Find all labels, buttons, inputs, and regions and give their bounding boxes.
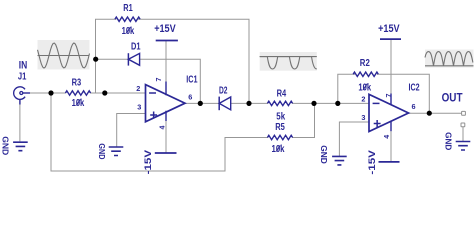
svg-text:R2: R2 bbox=[360, 58, 370, 69]
svg-text:R5: R5 bbox=[275, 122, 285, 133]
svg-text:IC2: IC2 bbox=[409, 83, 420, 94]
svg-text:OUT: OUT bbox=[442, 91, 464, 105]
svg-text:2: 2 bbox=[136, 84, 140, 93]
svg-text:5k: 5k bbox=[276, 112, 285, 123]
svg-text:GND: GND bbox=[97, 143, 106, 159]
svg-text:3: 3 bbox=[137, 102, 141, 111]
svg-text:4: 4 bbox=[384, 135, 391, 139]
svg-text:2: 2 bbox=[361, 95, 365, 104]
svg-text:4: 4 bbox=[159, 125, 166, 129]
svg-text:GND: GND bbox=[319, 145, 328, 164]
svg-text:7: 7 bbox=[156, 77, 163, 81]
svg-text:-15V: -15V bbox=[143, 150, 153, 175]
svg-text:J1: J1 bbox=[18, 72, 27, 83]
svg-text:+15V: +15V bbox=[378, 23, 400, 35]
svg-text:R1: R1 bbox=[123, 3, 133, 14]
svg-text:D2: D2 bbox=[219, 86, 228, 97]
svg-text:IC1: IC1 bbox=[186, 74, 197, 85]
svg-text:-15V: -15V bbox=[367, 150, 377, 175]
svg-text:+15V: +15V bbox=[154, 23, 176, 35]
svg-text:6: 6 bbox=[412, 102, 416, 111]
svg-text:6: 6 bbox=[188, 92, 192, 101]
svg-text:IN: IN bbox=[19, 60, 28, 72]
svg-text:GND: GND bbox=[444, 132, 453, 150]
svg-text:R4: R4 bbox=[277, 89, 287, 100]
svg-text:7: 7 bbox=[386, 93, 393, 97]
svg-text:GND: GND bbox=[0, 136, 9, 155]
svg-text:D1: D1 bbox=[131, 41, 141, 52]
svg-text:R3: R3 bbox=[72, 78, 82, 89]
svg-text:3: 3 bbox=[361, 113, 365, 122]
